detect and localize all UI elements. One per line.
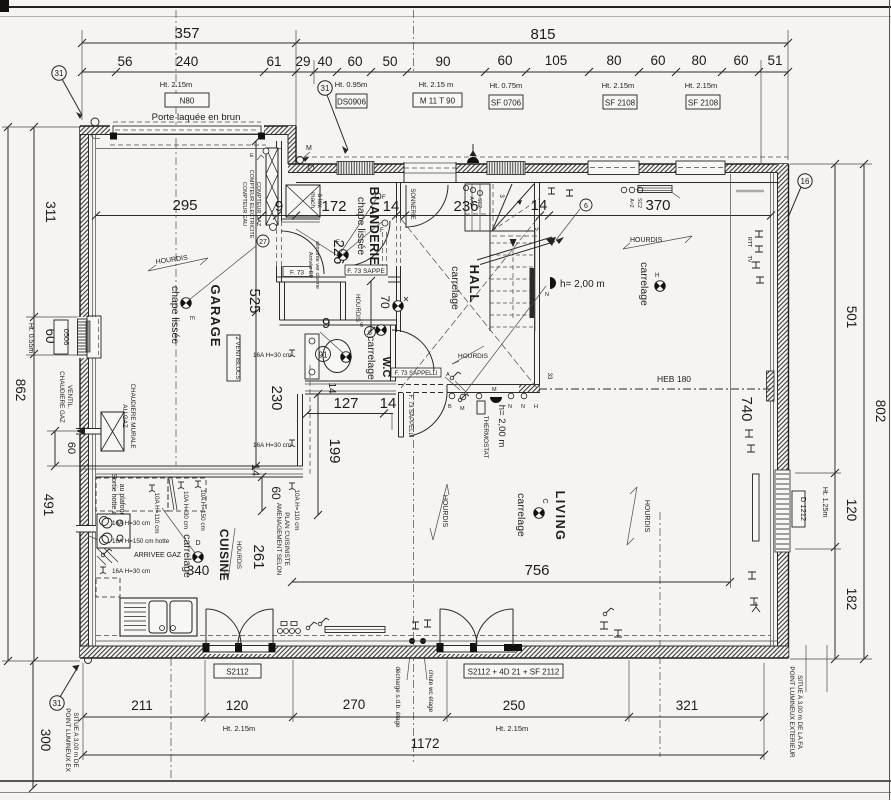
symbols near living terrace door (600, 622, 622, 637)
leader hall lamp (464, 286, 546, 394)
wall hall bottom (519, 385, 540, 393)
text decharge sdb etage (409, 638, 415, 644)
circles row near kitchen door (281, 622, 287, 626)
faint label top right (736, 190, 764, 193)
svg-text:alimente ver citerne: alimente ver citerne (314, 241, 320, 289)
svg-text:60: 60 (65, 442, 77, 454)
svg-text:Ht. 2.15m: Ht. 2.15m (602, 81, 635, 90)
svg-text:SITUE A 3,00 m DE: SITUE A 3,00 m DE (72, 712, 79, 767)
kitchen sink unit (120, 598, 197, 636)
label box F.73 (283, 267, 311, 277)
window W3 in front wall (487, 162, 525, 175)
svg-text:80: 80 (691, 53, 706, 68)
svg-text:340: 340 (187, 563, 210, 578)
ventiblocs box (227, 335, 240, 381)
vent dim 60 (54, 431, 56, 466)
kitchen left wall sockets (100, 517, 109, 526)
ref circle 16 right (798, 174, 812, 188)
svg-text:Ht. 2.15m: Ht. 2.15m (685, 81, 718, 90)
wall hall right (534, 183, 536, 393)
svg-text:M: M (306, 145, 312, 152)
ref circle 31 second (318, 81, 332, 95)
door buanderie-hall swing (345, 221, 390, 266)
svg-text:carrelage: carrelage (638, 262, 650, 306)
svg-text:10A H=150 cm: 10A H=150 cm (199, 489, 206, 530)
svg-text:SC2: SC2 (636, 198, 642, 208)
axis line living window (vertical dash-dot) (659, 512, 661, 757)
axis line kitchen door (vertical dash-dot) (170, 658, 172, 779)
svg-text:40: 40 (317, 54, 332, 69)
svg-text:501: 501 (844, 306, 859, 329)
front door opening M 11 T 90 (404, 162, 456, 174)
svg-text:16A H=30 cm: 16A H=30 cm (112, 520, 150, 527)
svg-text:carrelage: carrelage (449, 266, 461, 310)
label box SF 2108 a (603, 95, 637, 109)
svg-text:250: 250 (503, 698, 526, 713)
svg-text:LIVING: LIVING (553, 491, 567, 542)
wall vent strip living top (638, 186, 672, 193)
svg-text:AMENAGEMENT SELON: AMENAGEMENT SELON (275, 503, 282, 576)
svg-text:D: D (195, 540, 200, 547)
svg-text:230: 230 (268, 385, 285, 410)
stair closet box (465, 184, 490, 231)
svg-text:756: 756 (524, 562, 549, 579)
svg-text:M: M (460, 406, 465, 412)
svg-text:HEB 180: HEB 180 (657, 374, 691, 384)
leader buanderie lamp to switches (341, 198, 377, 252)
svg-text:802: 802 (873, 400, 888, 423)
svg-text:Ht. 0.55m: Ht. 0.55m (27, 323, 34, 354)
svg-text:14: 14 (249, 464, 261, 476)
HEB 180 beam line (539, 388, 770, 390)
svg-text:W.C: W.C (380, 357, 392, 378)
svg-text:GARAGE: GARAGE (208, 284, 223, 347)
lamp WC (341, 352, 352, 363)
svg-text:SF 0706: SF 0706 (491, 99, 522, 108)
svg-text:HOURDIS: HOURDIS (441, 495, 448, 528)
right extension lines (790, 163, 872, 165)
open window leaf (753, 474, 760, 541)
boiler vent pipe through left wall (76, 428, 101, 434)
threshold strip outside living doors (325, 627, 385, 633)
svg-text:HOURDIS: HOURDIS (235, 541, 241, 569)
svg-text:10A H=110 cm: 10A H=110 cm (153, 492, 160, 533)
wall kitchen/garage (80, 465, 303, 467)
dashed door jamb buanderie (382, 232, 384, 266)
wall buanderie bottom (H1) (277, 276, 347, 278)
page right edge (889, 0, 891, 800)
page border top (0, 6, 891, 8)
label box M 11 T 90 (413, 93, 462, 107)
left extension lines (2, 126, 80, 128)
svg-text:M: M (492, 387, 497, 393)
lamp lobby top (393, 301, 404, 312)
svg-text:9: 9 (275, 198, 283, 215)
svg-text:A: A (446, 372, 450, 378)
svg-text:321: 321 (676, 698, 699, 713)
svg-text:120: 120 (226, 698, 249, 713)
svg-text:A=2: A=2 (628, 198, 634, 207)
svg-text:TV: TV (746, 255, 752, 262)
hall diagonal axes (401, 219, 537, 388)
ref circle 31 bottom-left (50, 696, 64, 710)
svg-text:0506: 0506 (62, 329, 71, 346)
kitchen nook dim 199 (317, 394, 319, 515)
svg-text:SF 2108: SF 2108 (605, 99, 636, 108)
label box D 1212 (rotated) (792, 491, 805, 527)
chaudiere murale au gaz (101, 412, 124, 451)
wall hall left (396, 183, 398, 218)
svg-text:F: F (380, 228, 384, 234)
lobby dim 70 (370, 281, 372, 331)
svg-text:120: 120 (844, 499, 859, 522)
svg-text:Ht. 2.15 m: Ht. 2.15 m (419, 80, 454, 89)
label box S2112 (214, 664, 261, 678)
hood vent pipe through left wall (76, 525, 96, 532)
window SF2108 a (588, 161, 639, 175)
svg-text:16A H=150 cm hotte: 16A H=150 cm hotte (112, 538, 170, 545)
svg-text:61: 61 (266, 54, 281, 69)
wall left exterior (hatched) (80, 126, 89, 658)
stair winders (492, 184, 534, 231)
svg-text:carrelage: carrelage (515, 493, 527, 537)
svg-text:91: 91 (319, 351, 328, 360)
svg-text:D 1212: D 1212 (799, 497, 808, 521)
svg-text:60: 60 (497, 53, 512, 68)
svg-text:51: 51 (767, 53, 782, 68)
meter cabinet with X (266, 148, 278, 225)
bottom dim total 1172 (83, 754, 764, 756)
extension stubs for 357/815 (81, 30, 83, 120)
washing machine (286, 185, 320, 217)
bottom extension stubs (82, 663, 84, 760)
svg-text:182: 182 (844, 588, 859, 611)
svg-text:h= 2,00 m: h= 2,00 m (560, 279, 605, 290)
svg-text:31: 31 (321, 84, 330, 93)
svg-text:16A H=30 cm: 16A H=30 cm (253, 352, 291, 359)
svg-text:Porte laquée en brun: Porte laquée en brun (152, 112, 241, 123)
front door swing (405, 185, 407, 228)
dimension line 357/815 (82, 42, 788, 44)
svg-text:THERMOSTAT: THERMOSTAT (482, 416, 489, 459)
svg-text:HOURDIS: HOURDIS (354, 294, 360, 322)
kitchen terrace door swing (205, 609, 207, 645)
svg-text:270: 270 (343, 697, 366, 712)
door WC-lobby leaf (391, 368, 441, 377)
right dim total 802 (863, 164, 865, 659)
svg-text:491: 491 (41, 494, 56, 517)
living terrace door opening (438, 643, 515, 654)
svg-text:525: 525 (246, 288, 263, 313)
dashed units left wall (96, 578, 120, 597)
svg-text:9: 9 (322, 315, 330, 332)
svg-text:N: N (508, 404, 512, 410)
wall bottom exterior (hatched) (80, 646, 789, 658)
garage vertical dim 525/230 (255, 141, 257, 466)
window DS0906 in front wall (337, 162, 374, 175)
svg-text:chape lissée: chape lissée (355, 197, 367, 256)
living dim 756 (292, 581, 730, 583)
ref circle 27 (257, 235, 269, 247)
label box SF 0706 (489, 95, 523, 109)
label box N80 (165, 93, 209, 107)
label box DS0906 (336, 94, 367, 108)
glyphs right wall lower (745, 430, 760, 612)
svg-text:311: 311 (43, 201, 58, 223)
hatch marks under hob (97, 548, 118, 565)
hall top glyphs (548, 188, 573, 196)
svg-text:S2112: S2112 (226, 668, 249, 677)
svg-text:E: E (188, 316, 194, 320)
svg-text:chute wc étage: chute wc étage (427, 670, 434, 713)
svg-text:F. 73: F. 73 (290, 270, 304, 277)
svg-text:50: 50 (382, 54, 397, 69)
svg-text:60: 60 (347, 54, 362, 69)
switch E near cabinet (257, 155, 264, 160)
svg-text:1172: 1172 (410, 736, 439, 751)
svg-text:HOURDIS: HOURDIS (643, 500, 650, 533)
svg-text:N: N (545, 292, 549, 298)
svg-text:VENTIL.: VENTIL. (66, 385, 73, 409)
svg-text:F. 73 SAPPE: F. 73 SAPPE (347, 268, 385, 275)
svg-text:60: 60 (650, 53, 665, 68)
svg-text:POINT LUMINEUX EXTERIEUR: POINT LUMINEUX EXTERIEUR (788, 666, 795, 758)
coat hooks top of stairs (463, 185, 468, 190)
WC toilet bowl (323, 340, 351, 373)
svg-text:31: 31 (53, 699, 62, 708)
label box SF 2108 b (686, 95, 720, 109)
wall lobby/hall niche (V5) (340, 282, 342, 320)
svg-text:10A H=110 cm: 10A H=110 cm (293, 489, 300, 530)
svg-text:N80: N80 (180, 97, 195, 106)
svg-text:AU GAZ: AU GAZ (121, 404, 128, 428)
svg-text:16: 16 (801, 177, 810, 186)
wall light V on front wall (467, 157, 479, 163)
page border bottom (0, 780, 891, 782)
svg-text:SF 2108: SF 2108 (688, 99, 719, 108)
svg-text:Ht. 2.15m: Ht. 2.15m (496, 724, 529, 733)
interior dim line 295/9/172/14/236/14/370 (96, 215, 771, 217)
RTT TV outlets on right wall (752, 231, 764, 283)
svg-text:199: 199 (326, 438, 343, 463)
svg-text:F. 73 SAPPELLI: F. 73 SAPPELLI (407, 394, 413, 437)
right bottom stubs (805, 645, 807, 692)
svg-text:56: 56 (117, 54, 132, 69)
svg-text:décharge s.d.b. étage: décharge s.d.b. étage (394, 667, 401, 728)
front porch door hinge (297, 157, 304, 164)
stair cut line (477, 237, 552, 260)
kitchen socket texts (149, 485, 155, 492)
svg-text:BUANDERIE: BUANDERIE (367, 187, 381, 266)
radiator on right wall (767, 371, 775, 401)
svg-text:31: 31 (55, 69, 64, 78)
svg-text:295: 295 (172, 197, 197, 214)
switch cluster right of corridor door (458, 394, 469, 402)
svg-text:16A H=30 cm: 16A H=30 cm (112, 568, 150, 575)
svg-text:PLAN CUISINISTE: PLAN CUISINISTE (283, 512, 290, 566)
left dim total 862 (7, 127, 9, 661)
svg-text:HOURDIS: HOURDIS (458, 353, 489, 360)
roof overhang dashed line (296, 156, 788, 158)
svg-text:Ht. 1.25m: Ht. 1.25m (821, 487, 828, 518)
wall garage top (hatched) (80, 126, 296, 135)
living terrace door swing (439, 609, 441, 646)
svg-text:ARRIVEE GAZ: ARRIVEE GAZ (134, 552, 182, 559)
leader wc lamp (320, 332, 343, 353)
thermostat (477, 401, 485, 414)
svg-text:29: 29 (295, 54, 310, 69)
stair treads (490, 243, 535, 327)
window grille 0506 in left wall (77, 317, 101, 358)
bottom dim chain 211/120/270/250/321 (83, 716, 764, 718)
label box F. 73 SAPPE (345, 265, 387, 275)
stair handrail (530, 268, 535, 318)
svg-text:14: 14 (380, 395, 397, 412)
svg-text:CHAUDIERE GAZ: CHAUDIERE GAZ (58, 371, 65, 423)
svg-text:80: 80 (606, 53, 621, 68)
svg-text:carrelage: carrelage (365, 336, 377, 380)
svg-text:10A H=30 cm: 10A H=30 cm (182, 491, 189, 529)
svg-text:740: 740 (738, 396, 755, 421)
svg-text:357: 357 (174, 25, 199, 42)
svg-text:27: 27 (259, 239, 267, 246)
svg-text:6: 6 (584, 203, 588, 210)
wall left inner leaf (92, 134, 94, 650)
wall garage/buanderie (V1) (276, 141, 278, 221)
svg-text:172: 172 (321, 198, 346, 215)
ref circle 6 hall (580, 199, 592, 211)
svg-text:862: 862 (13, 379, 28, 402)
svg-text:14: 14 (326, 382, 337, 394)
stair flight edges (489, 184, 491, 331)
ref circle 91 (316, 347, 331, 362)
living dim 740 guide (730, 174, 732, 588)
wall WC top (H2) (280, 319, 397, 321)
wall WC bottom (H3, 14cm) (305, 380, 396, 382)
svg-text:105: 105 (545, 53, 568, 68)
svg-text:Ht. 2.15m: Ht. 2.15m (223, 724, 256, 733)
svg-text:60: 60 (269, 486, 283, 500)
garage sockets (289, 350, 295, 357)
svg-text:33: 33 (546, 373, 552, 380)
symbols left of living door (412, 620, 431, 629)
svg-text:240: 240 (176, 54, 199, 69)
svg-text:HOURDIS: HOURDIS (630, 237, 663, 244)
svg-text:90: 90 (435, 54, 450, 69)
WC dim 127/14 (307, 413, 393, 415)
dimension line top segments (82, 71, 788, 73)
kitchen hob unit (97, 514, 130, 548)
garage door in top wall (113, 121, 261, 123)
svg-text:RTT: RTT (746, 237, 752, 248)
svg-text:370: 370 (645, 197, 670, 214)
ref circle 31 top-left (52, 66, 66, 80)
svg-text:F: F (336, 240, 340, 246)
leader garage lamp (189, 246, 256, 300)
wall kitchen nook (V4) (297, 394, 299, 466)
wall WC right (V3) (390, 325, 392, 381)
svg-text:70: 70 (378, 295, 392, 309)
hall lamp h=2,00m (550, 277, 556, 289)
axis line front door (vertical dash-dot) (413, 10, 415, 72)
step wall between garage and main front wall (288, 126, 296, 172)
left dim chain 311/60/491 (33, 127, 35, 661)
svg-text:S2112 + 4D 21 + SF 2112: S2112 + 4D 21 + SF 2112 (468, 668, 560, 677)
svg-text:COMPTEUR ELECTRICITE: COMPTEUR ELECTRICITE (248, 170, 254, 239)
svg-text:COMPTEUR EAU: COMPTEUR EAU (241, 182, 247, 226)
svg-text:N: N (521, 404, 525, 410)
stair up arrow (512, 243, 514, 318)
svg-text:B: B (448, 404, 452, 410)
leader kitchen lamp (162, 508, 195, 553)
wall garage lower (V2) (279, 282, 281, 320)
left bottom dim 300 (32, 661, 34, 788)
svg-text:H: H (534, 404, 538, 410)
door hall-kitchen corridor leaf (398, 393, 400, 437)
window D1212 in right wall (775, 470, 790, 552)
wall front (main top, hatched) (288, 164, 789, 173)
hidden edge dashed in nook (309, 365, 311, 475)
wall right exterior (hatched) (778, 164, 789, 658)
svg-text:Ht. 0.75m: Ht. 0.75m (490, 81, 523, 90)
svg-text:300: 300 (38, 729, 53, 752)
svg-text:60: 60 (733, 53, 748, 68)
svg-text:Arrivée EP: Arrivée EP (307, 252, 313, 279)
svg-text:211: 211 (131, 698, 153, 713)
svg-text:chape lissée: chape lissée (169, 286, 181, 345)
porch sockets (308, 165, 314, 171)
svg-text:F. 73 SAPPELLI: F. 73 SAPPELLI (394, 371, 437, 377)
corner drain circle (85, 657, 92, 664)
svg-text:H: H (655, 273, 659, 279)
window SF2108 b (676, 161, 725, 175)
svg-text:236: 236 (453, 198, 478, 215)
right dim chain 501/120/182 (834, 164, 836, 659)
svg-text:6: 6 (368, 330, 372, 337)
WC cistern (305, 334, 319, 379)
sockets row below hall wall (449, 393, 455, 399)
svg-text:h= 2,00 m: h= 2,00 m (496, 405, 507, 448)
door garage-buanderie swing (281, 231, 324, 274)
svg-text:DS0906: DS0906 (337, 98, 366, 107)
svg-text:14: 14 (531, 197, 548, 214)
axis line garage (vertical dash-dot) (175, 10, 177, 141)
top chain guide lines right (760, 60, 762, 164)
svg-text:E: E (250, 153, 254, 159)
svg-text:127: 127 (333, 395, 358, 412)
svg-text:815: 815 (530, 26, 555, 43)
kitchen counter dashed (96, 478, 168, 511)
svg-text:261: 261 (250, 544, 267, 569)
kitchen dim 60 (261, 477, 263, 511)
svg-text:M 11 T 90: M 11 T 90 (420, 97, 456, 106)
svg-text:16A H=30 cm: 16A H=30 cm (253, 442, 291, 449)
svg-text:HALL: HALL (467, 265, 482, 304)
svg-text:au plafond: au plafond (118, 484, 125, 517)
svg-text:SONNERIE: SONNERIE (409, 188, 415, 219)
svg-text:Ht. 0.95m: Ht. 0.95m (335, 80, 368, 89)
svg-text:POINT LUMINEUX EX: POINT LUMINEUX EX (64, 708, 71, 772)
svg-text:C: C (541, 498, 548, 503)
corner mark top-left (0, 0, 9, 12)
svg-text:SITUE A 3,00 m DE LA FA: SITUE A 3,00 m DE LA FA (796, 675, 803, 750)
svg-text:Ht. 2.15m: Ht. 2.15m (160, 80, 193, 89)
kitchen terrace door opening (204, 643, 275, 654)
label box 0506 (rotated) (54, 320, 68, 354)
svg-text:CHAUDIERE MURALE: CHAUDIERE MURALE (129, 383, 136, 448)
svg-text:F: F (382, 195, 386, 201)
label box S2112 + 4D 21 + SF 2112 (464, 664, 563, 678)
